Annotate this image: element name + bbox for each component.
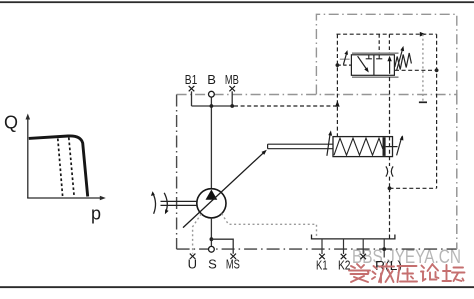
- pilot dashed below orifice: [389, 177, 391, 189]
- svg-text:K1: K1: [316, 257, 328, 272]
- pilot dashed through cylinder: [389, 77, 391, 166]
- plugged port x 3: [360, 254, 366, 259]
- pilot dashed to valve top port 1: [378, 34, 380, 53]
- 论: [421, 266, 426, 281]
- plugged port T symbol 2: [378, 55, 380, 59]
- node R(L) on enclosure border: [382, 247, 386, 251]
- rotation arrow arc 2: [164, 193, 167, 213]
- node drain junction: [388, 186, 392, 190]
- plugged port x B1: [189, 86, 195, 91]
- svg-text:MB: MB: [225, 72, 239, 87]
- pump flow triangle: [206, 190, 218, 200]
- rotation arrow arc 1: [153, 193, 156, 214]
- Q-p curve solid: [29, 136, 88, 197]
- node MB junction: [230, 104, 234, 108]
- plugged port x K1: [319, 254, 325, 259]
- DR pilot valve plate lines: [352, 52, 399, 54]
- svg-text:B: B: [207, 72, 216, 87]
- valve spring (adjustable): [395, 53, 412, 70]
- plugged port x MS: [230, 254, 236, 259]
- port R(L) drop: [383, 239, 385, 258]
- wire B1 down: [191, 91, 193, 106]
- svg-text:MS: MS: [226, 256, 240, 271]
- wire MB down: [231, 91, 233, 106]
- node S junction: [210, 237, 214, 241]
- pilot dashed to valve top port 2: [388, 34, 390, 53]
- port K1 drop: [321, 239, 323, 254]
- tank symbol: [419, 101, 427, 103]
- svg-text:Q: Q: [4, 113, 18, 133]
- pilot line vertical to DR valve: [336, 34, 338, 136]
- port S circle: [209, 246, 215, 252]
- Q-p dashed cutoff line 2: [69, 138, 74, 196]
- Q-p dashed cutoff line 1: [58, 139, 63, 196]
- proportional pilot tick: [340, 58, 350, 60]
- 爱: [351, 264, 364, 268]
- plugged port x MB: [229, 86, 235, 91]
- piston rod stub: [386, 146, 398, 148]
- bottom page rule: [0, 286, 474, 288]
- drive shaft: [161, 200, 197, 202]
- spring adjustment arrow: [397, 50, 403, 71]
- pilot dashed junction to right riser: [390, 187, 437, 189]
- Q-p characteristic: x axis: [27, 197, 101, 199]
- svg-text:S: S: [208, 256, 217, 271]
- stroke adjustment arrow left: [327, 133, 330, 156]
- wire header B1-B-MB: [192, 105, 233, 107]
- valve right position flow arrow: [389, 60, 391, 74]
- svg-text:U: U: [188, 256, 197, 271]
- stroking piston rod: [268, 143, 333, 145]
- 液: [372, 266, 377, 279]
- 坛: [443, 265, 452, 281]
- proportional pilot arrow: [343, 54, 346, 65]
- cylinder spring: [334, 138, 383, 155]
- pilot dashed down to case manifold: [389, 188, 391, 239]
- pilot line MB dashed: [234, 105, 337, 107]
- pump suction line S: [210, 218, 212, 247]
- svg-text:B1: B1: [185, 72, 198, 87]
- pilot stub to valve P port: [337, 64, 351, 66]
- case drain dotted to manifold: [222, 214, 317, 239]
- case drain manifold: [312, 235, 395, 239]
- enclosure pump unit bottom edge (dash-dot): [177, 248, 457, 250]
- enclosure pump unit top edge (dash-dot): [177, 94, 457, 96]
- case drain dotted to port U: [193, 214, 202, 254]
- arrow right on dashed top line: [420, 32, 426, 37]
- node pilot/valve port: [336, 63, 340, 67]
- pilot dashed right vertical: [436, 34, 438, 188]
- DR pilot valve body: [351, 55, 394, 76]
- arrow up on pilot line: [335, 101, 340, 107]
- enclosure pump unit right edge (dash-dot): [456, 95, 458, 250]
- orifice: [386, 166, 388, 176]
- pilot dashed from valve spring side: [395, 69, 437, 71]
- enclosure pump unit left edge (dash-dot): [176, 95, 178, 250]
- svg-text:p: p: [91, 204, 101, 224]
- cylinder piston: [383, 137, 386, 156]
- top page rule: [0, 1, 474, 3]
- max stroke adjustment arrow right: [397, 136, 402, 155]
- plugged port x K2: [341, 254, 347, 259]
- valve left position flow arrow: [358, 56, 367, 69]
- stroking cylinder body: [333, 137, 393, 157]
- port drop 3: [362, 239, 364, 254]
- plugged port T symbol 1: [368, 55, 370, 59]
- watermark chinese 爱液压论坛 (hand drawn strokes): [349, 264, 465, 283]
- port B circle: [209, 91, 215, 97]
- node spring pilot junction: [435, 68, 439, 72]
- 压: [398, 266, 417, 282]
- wire B main pressure line: [210, 97, 212, 189]
- enclosure pilot valve unit (dash-dot): [316, 14, 456, 94]
- plugged port x U: [190, 254, 196, 259]
- node B junction: [210, 104, 214, 108]
- drain dotted line to tank: [422, 34, 424, 102]
- pump circle: [197, 189, 226, 218]
- svg-text:BBS.JYEYA.CN: BBS.JYEYA.CN: [352, 247, 461, 268]
- pilot dashed box top line: [337, 33, 437, 35]
- wire MS branch: [211, 239, 233, 254]
- variable displacement diagonal / swashplate linkage: [183, 152, 264, 227]
- Q-p characteristic: y axis: [27, 118, 29, 198]
- port K2 drop: [343, 239, 345, 254]
